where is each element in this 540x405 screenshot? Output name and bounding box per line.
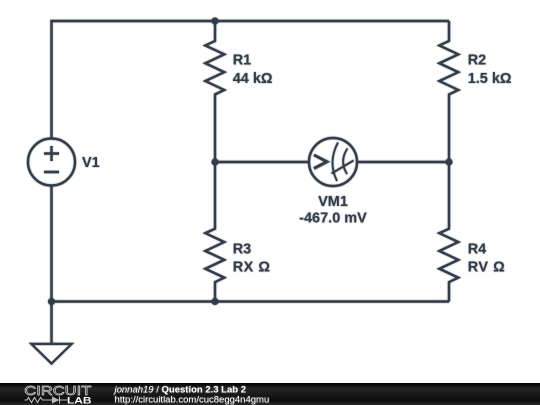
svg-text:RX Ω: RX Ω [233,260,271,276]
circuitlab logo [24,383,91,405]
svg-text:1.5 kΩ: 1.5 kΩ [468,71,512,87]
svg-text:R2: R2 [468,53,487,69]
svg-text:V1: V1 [82,155,100,171]
wire V1 bottom lead [50,186,52,303]
resistor R2 [439,21,458,162]
svg-text:-467.0 mV: -467.0 mV [299,210,367,226]
node middle left junction [211,158,218,165]
resistor R4 [439,162,458,302]
svg-text:VM1: VM1 [318,194,348,210]
ground [32,344,72,364]
node bottom left junction [48,298,55,305]
node bottom middle junction [211,298,218,305]
svg-text:http://circuitlab.com/cuc8egg4: http://circuitlab.com/cuc8egg4n4gmu [115,395,270,405]
node top junction [211,17,218,24]
svg-text:RV Ω: RV Ω [468,260,506,276]
wire bottom rail [52,300,450,302]
voltage source V1 [28,139,75,186]
resistor R3 [205,162,224,302]
wire middle left (node to voltmeter) [215,161,309,163]
svg-text:R4: R4 [468,241,487,257]
svg-text:R3: R3 [233,241,252,257]
svg-text:R1: R1 [233,53,252,69]
svg-text:44 kΩ: 44 kΩ [233,71,273,87]
resistor R1 [205,21,224,162]
svg-text:LAB: LAB [67,396,92,405]
wire middle right (voltmeter to node) [357,161,449,163]
node middle right junction [445,158,452,165]
wire ground lead [50,302,52,344]
voltmeter VM1 [309,138,357,186]
wire top rail with V1 top lead [52,21,450,139]
